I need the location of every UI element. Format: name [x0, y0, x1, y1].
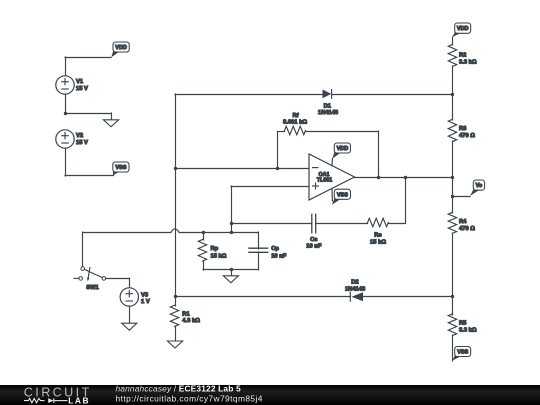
flag VDD (left) — [111, 42, 129, 57]
wire Rp-Cp bottom rail — [203, 269, 258, 271]
svg-text:R1: R1 — [182, 311, 190, 317]
svg-text:Rf: Rf — [292, 113, 298, 119]
wire junction to ground — [65, 113, 111, 115]
svg-text:R2: R2 — [459, 53, 466, 59]
svg-text:VDD: VDD — [115, 45, 127, 51]
ground (R1) — [167, 341, 182, 348]
voltage source V3 — [120, 288, 138, 306]
svg-text:VDD: VDD — [457, 26, 469, 32]
resistor Rs — [368, 218, 389, 226]
op-amp V- stub — [331, 188, 333, 201]
svg-text:LAB: LAB — [68, 395, 90, 405]
svg-text:R4: R4 — [459, 219, 467, 225]
svg-text:V1: V1 — [76, 79, 84, 85]
voltage source V1 — [56, 76, 74, 94]
resistor Rp — [203, 232, 205, 240]
flag VSS (op-amp) — [332, 189, 351, 205]
wire neg input — [175, 168, 309, 170]
resistor R3 — [448, 119, 456, 142]
wire R4 to R5 — [452, 233, 454, 315]
ground (V3) — [122, 323, 137, 330]
svg-text:http://circuitlab.com/cy7w79tq: http://circuitlab.com/cy7w79tqm85j4 — [116, 393, 263, 403]
resistor R2 — [448, 44, 456, 66]
wire rail top — [452, 37, 454, 45]
svg-text:Cs: Cs — [310, 237, 317, 243]
wire top rail left segment — [175, 94, 323, 96]
wire Vo tap — [452, 196, 470, 198]
wire sw riser — [82, 232, 84, 268]
resistor R4 — [448, 212, 456, 233]
node Rs-output — [404, 176, 407, 179]
svg-text:15 kΩ: 15 kΩ — [211, 253, 227, 259]
svg-text:470 Ω: 470 Ω — [459, 133, 475, 139]
svg-text:3.3 kΩ: 3.3 kΩ — [459, 60, 477, 66]
node R1-D2 — [174, 295, 177, 298]
svg-text:V3: V3 — [141, 293, 149, 299]
wire SW1 to V3 — [106, 278, 130, 280]
wire hop over vertical — [171, 229, 179, 233]
svg-text:15 V: 15 V — [76, 86, 88, 92]
svg-text:470 Ω: 470 Ω — [459, 226, 475, 232]
node D2-rail — [451, 295, 454, 298]
node Rp top — [202, 231, 205, 234]
op-amp minus sign — [313, 167, 319, 169]
wire Cs to Rs — [316, 223, 368, 225]
diode D2 1N4148 — [350, 292, 363, 301]
wire R5 to VSS — [452, 335, 454, 361]
wire V2 bottom to VSS flag — [65, 148, 67, 176]
wire top rail right segment — [332, 94, 452, 96]
node neg-input tee — [174, 167, 177, 170]
op-amp V+ stub — [331, 159, 333, 166]
svg-text:D1: D1 — [324, 104, 332, 110]
svg-text:15 V: 15 V — [76, 140, 88, 146]
wire R2 to R3 — [452, 66, 454, 120]
op-amp OA1 TL081 body — [309, 154, 355, 200]
flag VSS (rail bottom) — [452, 347, 471, 361]
flag VDD (rail top) — [452, 23, 471, 37]
wire V3 to ground — [129, 306, 131, 324]
svg-text:3.3 kΩ: 3.3 kΩ — [459, 328, 477, 334]
svg-text:hannahccasey / ECE3122 Lab 5: hannahccasey / ECE3122 Lab 5 — [116, 385, 241, 393]
wire V1 bottom — [65, 94, 67, 114]
op-amp plus sign — [313, 185, 319, 187]
svg-text:VSS: VSS — [115, 165, 126, 171]
wire D2 right segment — [363, 296, 452, 298]
svg-text:15 kΩ: 15 kΩ — [370, 239, 386, 245]
resistor R1 — [175, 296, 177, 306]
svg-text:8.601 kΩ: 8.601 kΩ — [283, 119, 307, 125]
svg-text:VDD: VDD — [337, 146, 349, 152]
wire node to Cs — [231, 223, 312, 225]
node output tap — [451, 195, 454, 198]
svg-text:VSS: VSS — [457, 350, 468, 356]
wire Rs to output — [388, 223, 405, 225]
wire Rf to output — [306, 131, 379, 133]
svg-text:Cp: Cp — [271, 246, 279, 252]
footer bar — [0, 385, 540, 405]
resistor R5 — [448, 314, 456, 336]
svg-text:D2: D2 — [351, 280, 358, 286]
svg-text:VSS: VSS — [337, 192, 348, 198]
node riser — [231, 223, 233, 233]
capacitor Cp — [258, 232, 260, 249]
node Rf tap — [276, 167, 279, 170]
svg-text:10 nF: 10 nF — [306, 244, 322, 250]
wire pos input — [231, 186, 309, 188]
wire left loop vertical — [175, 94, 177, 297]
ground (Rp-Cp) — [231, 269, 233, 277]
flag VSS (left) — [113, 162, 129, 175]
node output-rail — [451, 176, 454, 179]
svg-text:1N4148: 1N4148 — [318, 110, 339, 116]
resistor Rf — [285, 126, 306, 134]
CircuitLab logo — [24, 385, 92, 405]
capacitor Cs — [312, 214, 316, 233]
ground (V1-V2 midpoint) — [111, 113, 113, 121]
node Cs tee — [230, 222, 233, 225]
diode D1 1N4148 — [323, 90, 332, 99]
svg-text:V2: V2 — [76, 133, 83, 139]
wire D2 left segment — [175, 296, 350, 298]
voltage source V2 — [56, 130, 74, 148]
wire R3 to R4 — [452, 141, 454, 213]
footer title text — [116, 383, 263, 403]
svg-text:1N4148: 1N4148 — [345, 287, 366, 293]
flag VDD (op-amp) — [332, 143, 350, 159]
switch SW1 — [74, 267, 106, 281]
wire Rf riser — [277, 132, 279, 169]
svg-text:4.3 kΩ: 4.3 kΩ — [182, 318, 200, 324]
svg-text:Rs: Rs — [374, 232, 381, 238]
node Rf-output — [377, 176, 380, 179]
svg-text:TL081: TL081 — [317, 178, 332, 184]
wire sw rail left of hop — [83, 232, 171, 234]
svg-text:10 nF: 10 nF — [271, 253, 287, 259]
wire sw rail right of hop — [179, 232, 258, 234]
svg-text:1 V: 1 V — [141, 299, 150, 305]
node V1-V2 junction — [64, 112, 67, 115]
flag Vo — [470, 180, 485, 196]
svg-text:Rp: Rp — [211, 246, 219, 252]
svg-text:Vo: Vo — [476, 183, 483, 189]
svg-text:R5: R5 — [459, 320, 467, 326]
node D1-rail — [451, 93, 454, 96]
svg-text:R3: R3 — [459, 126, 467, 132]
wire op-amp output — [355, 177, 453, 179]
wire V1 top to VDD flag — [65, 57, 111, 59]
node ground tee — [230, 268, 233, 271]
svg-text:SW1: SW1 — [86, 285, 99, 291]
